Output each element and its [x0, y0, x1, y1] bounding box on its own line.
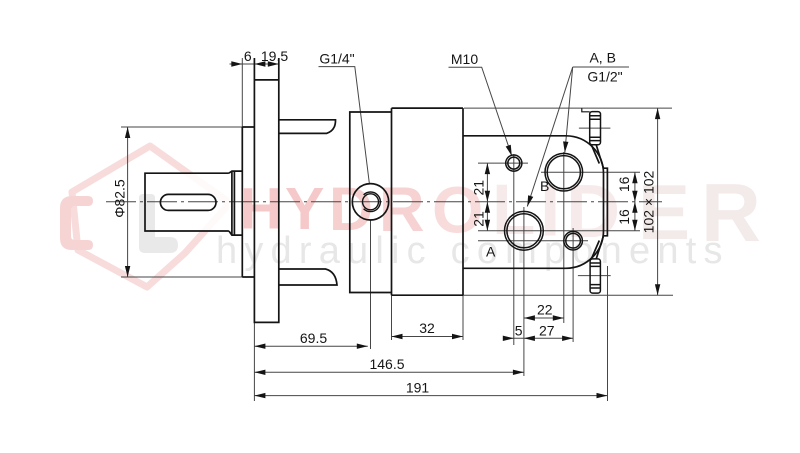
svg-text:21: 21 — [470, 180, 486, 196]
leader to port B — [565, 67, 573, 153]
main body — [392, 108, 464, 295]
ext line 191 right — [607, 266, 609, 401]
port B — [545, 153, 583, 191]
ext line 19.5 left — [253, 58, 255, 79]
svg-text:102 × 102: 102 × 102 — [641, 170, 657, 233]
svg-text:19.5: 19.5 — [261, 48, 288, 64]
port M10 — [506, 155, 522, 171]
shaft — [145, 173, 229, 231]
ext line 32 right — [462, 295, 464, 340]
flange fill — [254, 80, 278, 323]
svg-text:Φ82.5: Φ82.5 — [112, 179, 128, 218]
dim line 32 — [392, 336, 464, 338]
shaft fill — [145, 173, 230, 231]
arrow 5 — [503, 336, 514, 341]
drain port — [564, 231, 583, 250]
svg-text:G1/2": G1/2" — [587, 68, 622, 84]
arrows 102x102 — [655, 108, 660, 119]
ext line port A down — [523, 207, 525, 376]
arrow leader M10 — [506, 145, 515, 157]
ext line port B down — [563, 152, 565, 323]
dim line 22 — [524, 317, 564, 319]
svg-text:G1/4": G1/4" — [319, 50, 354, 66]
bottom plug neck — [591, 236, 603, 259]
leader G1/4 — [319, 67, 370, 183]
svg-text:16: 16 — [616, 209, 632, 225]
svg-text:16: 16 — [616, 176, 632, 192]
svg-text:A, B: A, B — [589, 50, 615, 66]
pilot fill — [242, 127, 254, 277]
svg-text:69.5: 69.5 — [300, 330, 327, 346]
flange pilot — [242, 127, 254, 277]
top plug — [590, 112, 601, 145]
top rib — [279, 120, 336, 134]
dim line 191 — [254, 395, 607, 397]
M10 row — [478, 162, 528, 164]
bottom plug center row — [578, 275, 611, 277]
ext line G1/4 port down — [370, 220, 372, 349]
ext line M10 down — [513, 154, 515, 345]
arrows 16 upper — [632, 172, 637, 183]
arrows 32 — [392, 334, 403, 339]
watermark big text HYDROLIDER — [240, 166, 761, 259]
end housing fill — [463, 136, 604, 268]
body fill — [392, 108, 464, 295]
top plug center row — [579, 127, 611, 129]
svg-text:27: 27 — [539, 322, 555, 338]
plugs fill — [590, 112, 601, 145]
dim line 146.5 — [254, 371, 524, 373]
dim line 102 — [657, 108, 659, 295]
arrows 19.5 — [254, 61, 265, 66]
dim line 21 — [486, 163, 488, 231]
ext line 32 left — [391, 295, 393, 340]
end housing outline — [463, 136, 604, 268]
dim line 16 — [634, 172, 636, 231]
ext line flange face down — [253, 322, 255, 401]
svg-text:146.5: 146.5 — [369, 356, 404, 372]
shaft collar — [229, 171, 242, 235]
neck section — [350, 112, 392, 293]
port A — [505, 211, 544, 250]
svg-text:32: 32 — [419, 320, 435, 336]
neck fill — [350, 112, 392, 293]
collar fill — [229, 171, 242, 235]
ext line drain down — [572, 228, 574, 342]
svg-text:191: 191 — [406, 379, 430, 395]
watermark hexagon logo — [72, 146, 230, 287]
dim line 6 19.5 — [230, 63, 279, 65]
arrows 21 upper — [485, 163, 490, 174]
flange plate — [254, 58, 278, 322]
svg-text:M10: M10 — [451, 51, 478, 67]
G1/4 port thread arc — [364, 192, 381, 212]
ext line 19.5 right — [278, 58, 280, 79]
svg-text:hydraulic components: hydraulic components — [216, 230, 730, 272]
leader M10 — [449, 67, 512, 156]
arrows 69.5 — [254, 344, 265, 349]
arrow leader A — [525, 195, 534, 207]
top plug neck — [591, 145, 603, 169]
port A row — [478, 230, 640, 232]
svg-text:6: 6 — [244, 48, 252, 64]
svg-text:B: B — [540, 178, 549, 194]
arrow leader B — [562, 141, 568, 152]
G1/4 port outer — [352, 184, 388, 220]
ext 102 bottom — [463, 294, 673, 296]
top plug boss step — [582, 108, 590, 112]
arrows phi82.5 — [125, 127, 130, 138]
dim line phi82.5 — [127, 127, 129, 277]
arrows 6 — [231, 61, 242, 66]
arrows 22 — [524, 315, 535, 320]
arrows 27 — [524, 336, 535, 341]
leader A,B underline — [573, 66, 629, 68]
leader to port A — [527, 67, 572, 207]
arrows 21 lower — [485, 202, 490, 213]
arrows 146.5 — [254, 370, 265, 375]
svg-text:22: 22 — [537, 302, 553, 318]
drain row — [478, 240, 588, 242]
bottom rib fill — [279, 269, 337, 285]
G1/4 port inner — [363, 194, 379, 210]
dim line 5 and 27 — [503, 337, 573, 339]
ext 102 top — [464, 107, 672, 109]
svg-text:5: 5 — [515, 322, 523, 338]
arrows 16 lower — [632, 202, 637, 213]
port B row — [541, 171, 640, 173]
end face edge line — [604, 168, 608, 236]
ext line pilot top — [121, 126, 254, 128]
top rib fill — [279, 120, 336, 134]
arrows 191 — [254, 393, 265, 398]
watermark gray L bracket — [139, 194, 178, 253]
ext line 6 left — [241, 58, 243, 127]
shaft keyway — [160, 194, 216, 210]
svg-text:A: A — [486, 244, 496, 260]
bottom rib — [279, 269, 337, 285]
svg-text:21: 21 — [470, 211, 486, 227]
watermark pink C bracket — [60, 196, 93, 250]
dim line 69.5 — [254, 345, 367, 347]
ext line pilot bottom — [121, 276, 254, 278]
bottom plug — [590, 259, 600, 293]
centerline main horizontal — [106, 201, 662, 203]
